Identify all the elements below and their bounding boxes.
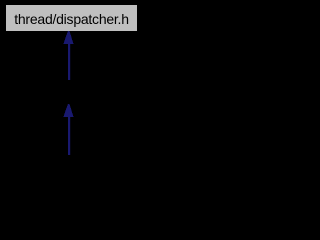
arrow 2 (bottom node -> middle node) [63, 104, 73, 155]
arrow 1 (middle node -> thread/dispatcher.h) [63, 31, 73, 80]
node thread/dispatcher.h [5, 4, 138, 32]
